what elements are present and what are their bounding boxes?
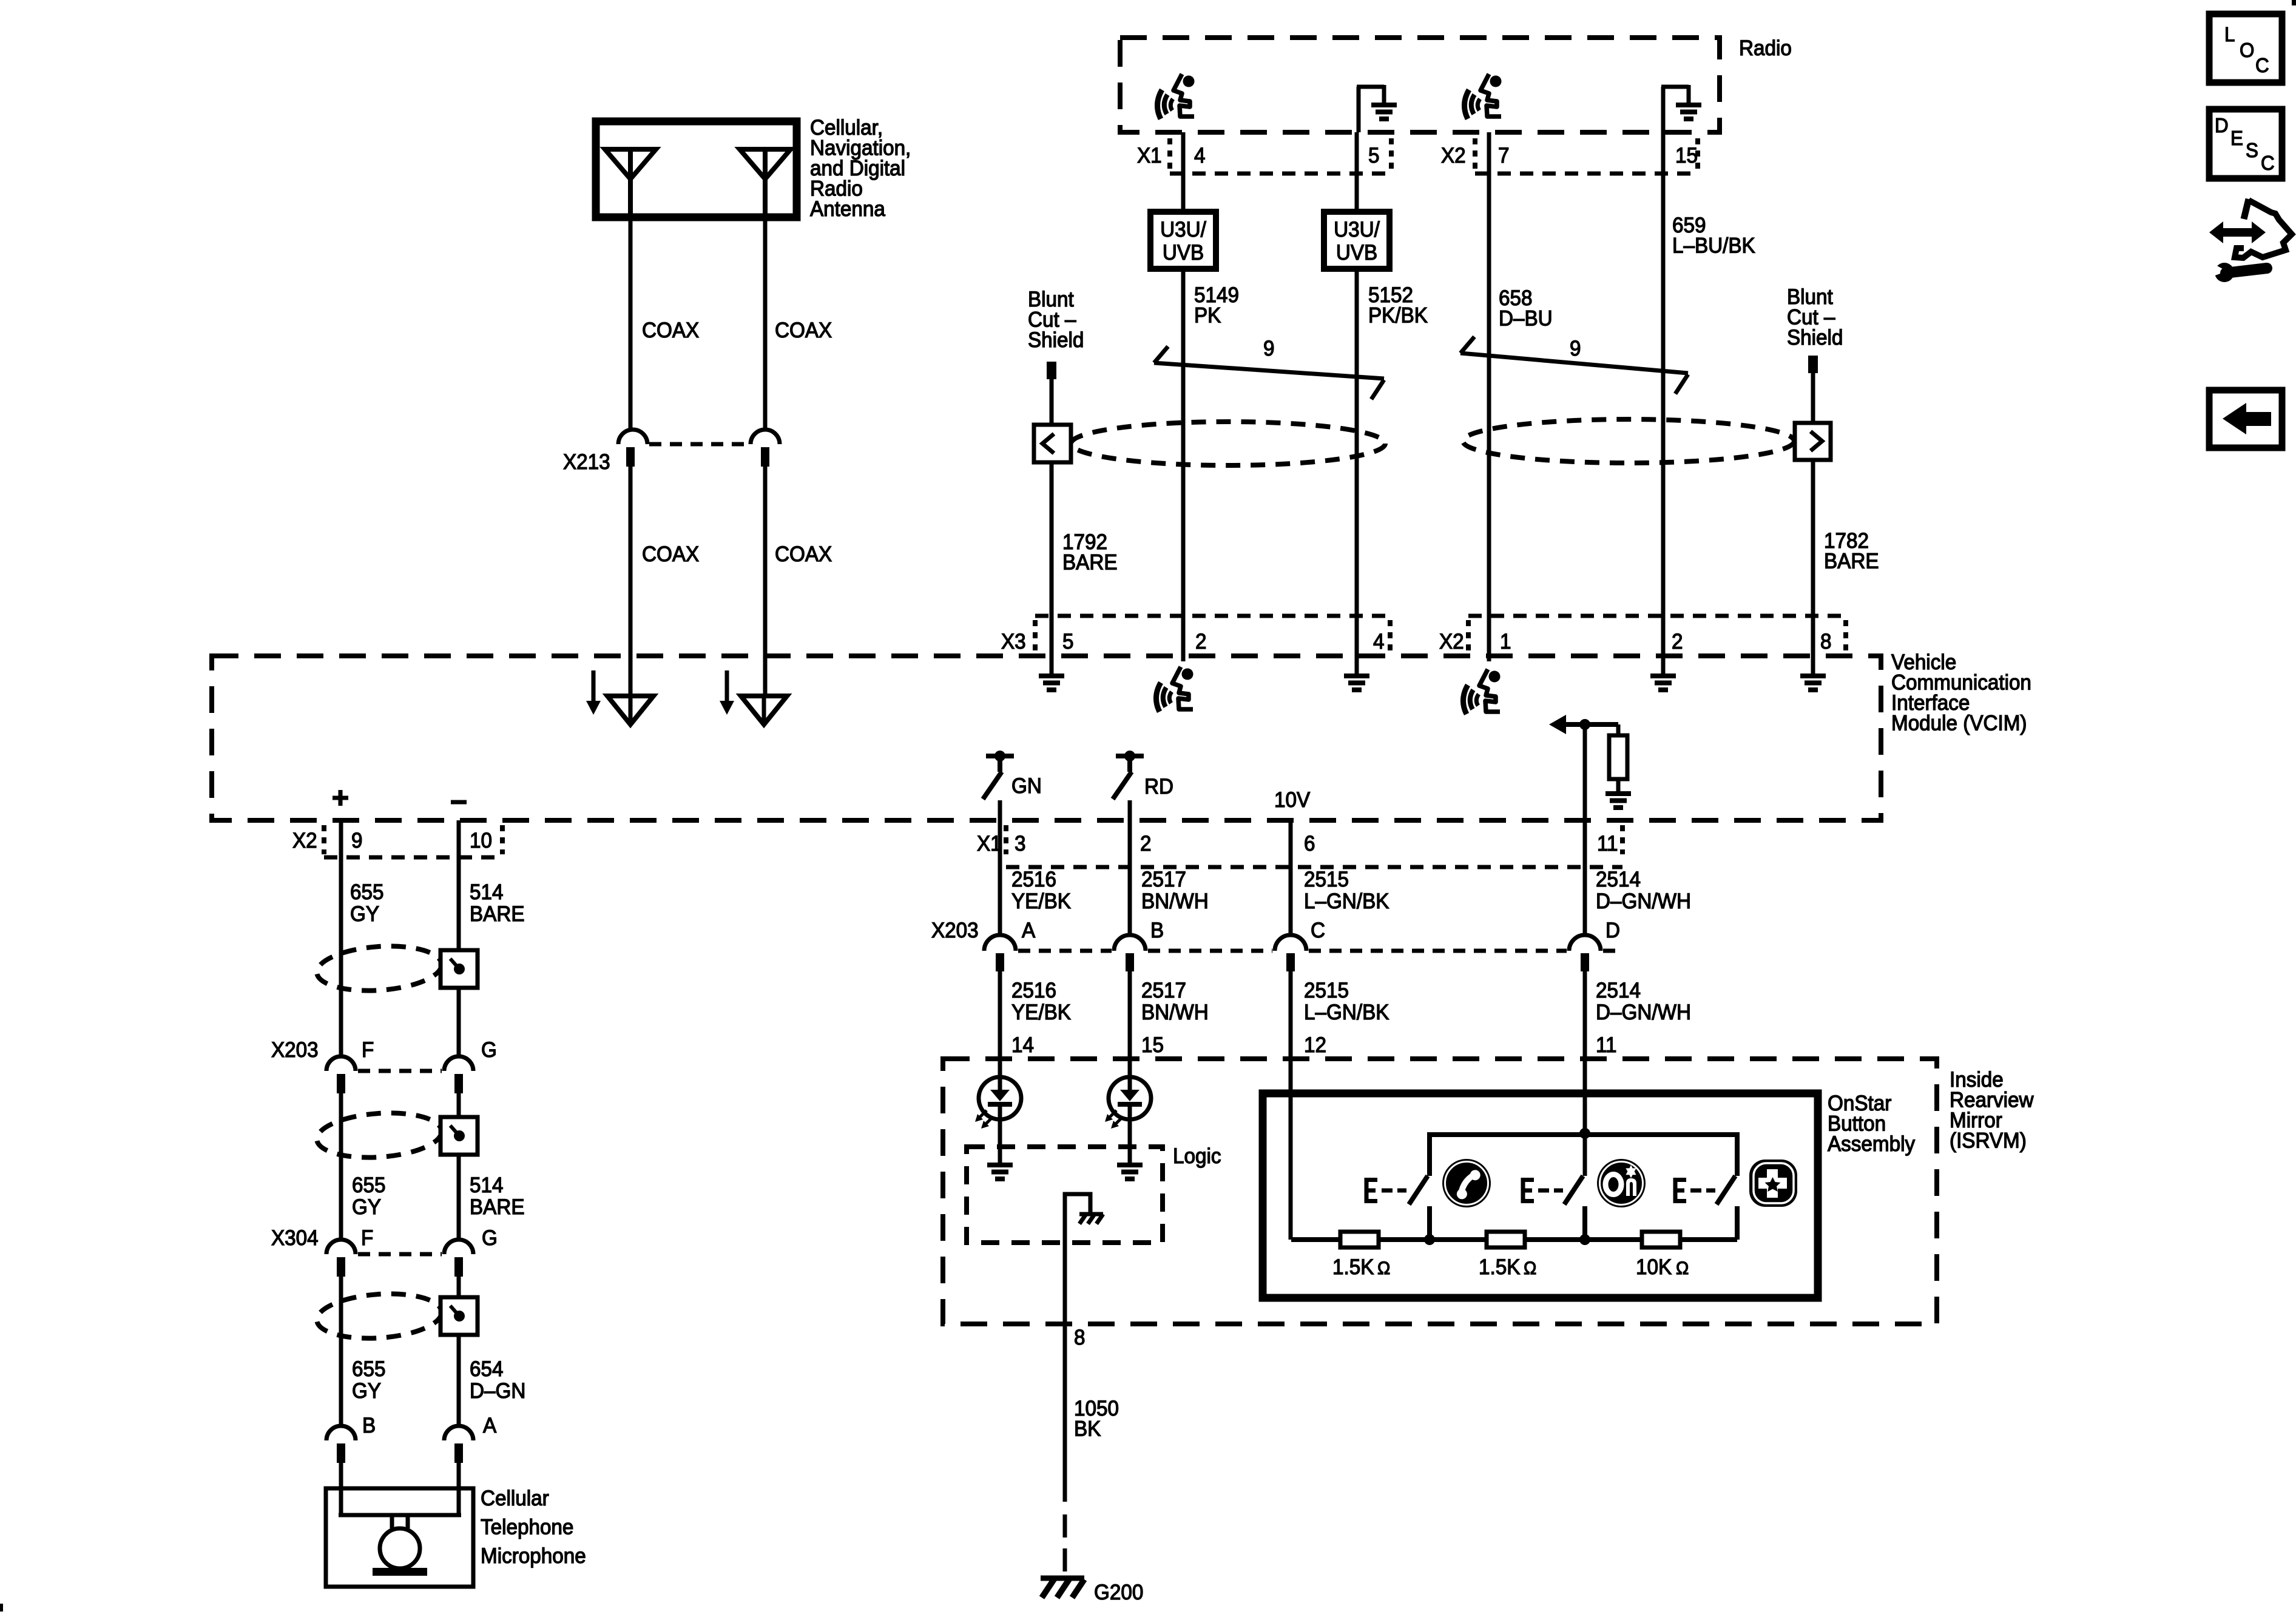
VCIM mic icon left [1181,616,1186,661]
shield drain box 2 [441,1117,478,1155]
svg-text:4: 4 [1194,144,1205,167]
shield ellipse left pair [1071,422,1385,465]
svg-text:Ω: Ω [1676,1258,1689,1278]
svg-text:X1: X1 [1137,144,1162,167]
svg-text:11: 11 [1597,832,1618,856]
svg-text:Microphone: Microphone [481,1544,586,1568]
page corner mark top right [2292,0,2296,5]
antenna feed arrow small left [592,670,596,701]
logic chassis ground symbol [1079,1214,1103,1224]
adjust hand icon wrench [2212,263,2267,282]
connector X203 arc A [984,935,1016,951]
svg-text:B: B [362,1414,376,1437]
svg-text:X2: X2 [1441,144,1466,167]
connector B arc [326,1426,356,1440]
svg-text:1: 1 [1500,630,1511,653]
plus symbol [333,796,348,800]
wire 654 D-GN segment 3b [457,1335,461,1426]
svg-text:G: G [482,1226,498,1250]
svg-text:Telephone: Telephone [481,1516,573,1539]
Radio dashed box [1120,38,1720,132]
VCIM X2 mic connector strip [322,825,326,854]
VCIM dashed box [212,656,1881,820]
svg-text:BN/WH: BN/WH [1141,1001,1209,1024]
connector A arc [444,1426,473,1440]
svg-text:X3: X3 [1001,630,1026,653]
antenna end triangle right [741,696,787,724]
wire count slash 9 left pair [1154,346,1384,399]
svg-text:655: 655 [352,1173,385,1197]
wire COAX right lower [763,467,768,696]
wire 655 GY segment 3 [339,1277,343,1426]
minus symbol [451,800,467,805]
svg-text:4: 4 [1373,630,1384,653]
svg-text:15: 15 [1675,144,1698,167]
svg-text:S: S [2246,139,2258,161]
connector X213 left arc [618,430,647,444]
shield ellipse left chain 2 [316,1109,444,1161]
mic icon radio left [1157,74,1194,119]
VCIM ground under 659 wire [1661,616,1666,673]
junction dot D on top bus [1579,1128,1590,1139]
svg-text:6: 6 [1304,832,1315,856]
VCIM ground under shield drain left [1050,616,1054,673]
svg-text:GN: GN [1011,774,1042,798]
wire 5152 PK/BK [1355,132,1359,212]
svg-text:2516: 2516 [1011,979,1056,1002]
medic button icon [1749,1160,1797,1207]
connector X203 arc D [1569,935,1601,951]
svg-text:Shield: Shield [1787,326,1843,349]
svg-text:GY: GY [350,902,379,926]
wire 514 BARE segment 2b [457,1155,461,1240]
back arrow glyph [2223,403,2271,434]
connector X203G pin [454,1074,463,1093]
connector X213 left pin [626,447,635,467]
LOC icon box [2209,14,2282,83]
connector B pin [337,1443,345,1463]
svg-text:655: 655 [352,1357,385,1381]
page corner mark bottom left [0,1604,3,1612]
VCIM resistor [1616,724,1621,735]
connector X203G arc [444,1056,473,1071]
svg-text:D: D [2215,114,2229,137]
svg-text:2: 2 [1140,832,1151,856]
svg-text:BARE: BARE [470,902,525,926]
connector X203 pin C rect [1286,953,1295,971]
radio ground symbol right [1661,87,1666,132]
svg-text:10K: 10K [1636,1255,1672,1279]
VCIM X3 connector strip [1033,620,1038,652]
mic icon radio right [1464,74,1501,119]
svg-text:UVB: UVB [1336,241,1377,265]
svg-text:2514: 2514 [1596,868,1641,891]
wire 2514 lower [1583,971,1587,1133]
svg-text:X2: X2 [1439,630,1464,653]
VCIM ground under shield drain right [1811,616,1815,673]
svg-text:10V: 10V [1274,788,1310,812]
ground G200 chassis [1063,1576,1067,1578]
VCIM resistor ground [1606,791,1631,810]
svg-text:D: D [1606,919,1620,942]
connector X203 pin D rect [1581,953,1589,971]
Cellular Telephone Microphone box [326,1488,473,1587]
svg-text:5: 5 [1062,630,1073,653]
svg-text:PK: PK [1194,304,1221,328]
wire 2517 upper [1128,800,1132,935]
svg-text:2516: 2516 [1011,868,1056,891]
svg-text:A: A [483,1414,496,1437]
svg-text:Module (VCIM): Module (VCIM) [1891,712,2027,735]
shield ellipse left chain 3 [316,1290,444,1342]
connector X203F arc [326,1056,356,1071]
svg-text:F: F [362,1038,374,1062]
shield drain connector box right [1795,423,1831,460]
connector X304 dashed link [358,1252,442,1257]
ISRVM dashed box [943,1059,1937,1324]
svg-text:U3U/: U3U/ [1160,218,1206,241]
DESC icon box [2209,109,2282,178]
shield drain box 1 [441,950,478,988]
svg-text:2517: 2517 [1141,868,1186,891]
wire count slash 9 right pair [1460,337,1688,394]
svg-text:2517: 2517 [1141,979,1186,1002]
svg-text:A: A [1022,919,1035,942]
svg-text:X203: X203 [931,919,979,942]
svg-text:B: B [1150,919,1164,942]
antenna symbol left [605,149,656,179]
radio ground symbol left [1357,87,1361,132]
switch RD [1116,754,1144,758]
svg-text:Antenna: Antenna [810,197,885,221]
svg-text:F: F [361,1226,373,1250]
svg-text:3: 3 [1015,832,1025,856]
wire 514 BARE segment 1b [457,988,461,1057]
connector X203 dashed row [1018,949,1112,953]
mic internal neck [392,1515,408,1528]
svg-text:O: O [2240,39,2254,61]
connector X304G arc [444,1240,473,1254]
svg-text:BARE: BARE [470,1195,525,1219]
svg-text:C: C [1311,919,1325,942]
svg-text:BK: BK [1074,1417,1101,1441]
switch GN [986,754,1014,758]
svg-text:Radio: Radio [1739,36,1792,60]
svg-text:E: E [2230,127,2243,149]
svg-text:D–GN: D–GN [470,1379,525,1403]
wire 2516 upper [998,800,1002,935]
svg-text:10: 10 [470,829,492,852]
VCIM bus arrow left [1549,715,1566,734]
svg-text:8: 8 [1820,630,1831,653]
svg-text:Ω: Ω [1524,1258,1536,1278]
connector X203 pin B rect [1126,953,1134,971]
wire 514 BARE segment 2 [457,1093,461,1116]
mic internal circle [380,1528,420,1568]
junction dot bus 1 [1424,1234,1435,1245]
medic switch E contact [1673,1178,1686,1203]
wire 1050 BK upper [1063,1241,1067,1324]
adjust hand icon double arrow [2209,221,2266,243]
junction dot bus 2 [1579,1234,1590,1245]
phone switch E contact [1365,1178,1377,1203]
svg-text:BARE: BARE [1062,551,1118,575]
LED B ground [1117,1163,1143,1181]
adjust hand icon outline [2244,199,2249,219]
LED A ground [987,1163,1013,1181]
svg-text:Shield: Shield [1028,328,1084,352]
mic internal bus [339,1513,461,1517]
connector X304F pin [337,1257,345,1277]
LED A [998,1059,1002,1077]
back arrow icon box [2209,390,2282,448]
wire 1050 BK lower [1063,1324,1067,1502]
svg-text:2515: 2515 [1304,979,1349,1002]
svg-text:D–GN/WH: D–GN/WH [1596,1001,1691,1024]
wire 655 GY segment 1 [339,820,343,1057]
svg-text:G: G [481,1038,497,1062]
svg-text:Logic: Logic [1173,1144,1221,1168]
wire D to bottom inside assembly [1583,1135,1587,1176]
VCIM mic icon right [1487,616,1491,661]
wire COAX left lower [629,467,633,696]
resistor 1.5K second [1487,1232,1525,1247]
svg-text:(ISRVM): (ISRVM) [1950,1129,2027,1153]
antenna assembly box [596,121,797,217]
svg-text:12: 12 [1304,1033,1326,1057]
connector X213 dashed link [649,442,749,447]
svg-text:Assembly: Assembly [1828,1132,1915,1156]
connector A pin [454,1443,463,1463]
connector X203 pin A rect [996,953,1004,971]
svg-text:X304: X304 [271,1226,319,1250]
svg-text:9: 9 [1263,337,1274,360]
svg-text:655: 655 [350,880,383,904]
mic internal base bar [373,1568,427,1576]
svg-text:RD: RD [1144,775,1173,798]
LED B [1105,1077,1151,1129]
svg-text:7: 7 [1498,144,1509,167]
wire 1050 BK dashed segment [1063,1514,1067,1576]
svg-text:PK/BK: PK/BK [1368,304,1428,328]
svg-text:L–BU/BK: L–BU/BK [1672,234,1755,258]
svg-text:14: 14 [1011,1033,1034,1057]
svg-text:D–BU: D–BU [1499,307,1553,331]
svg-text:2515: 2515 [1304,868,1349,891]
OnStar Button Assembly box [1263,1093,1818,1298]
svg-text:L–GN/BK: L–GN/BK [1304,1001,1389,1024]
svg-text:5: 5 [1368,144,1379,167]
svg-text:COAX: COAX [775,319,832,342]
radio connector X1 strip [1167,138,1172,170]
svg-text:L–GN/BK: L–GN/BK [1304,890,1389,913]
svg-text:Cellular: Cellular [481,1487,549,1510]
svg-text:11: 11 [1596,1033,1617,1057]
svg-text:X203: X203 [271,1038,319,1062]
svg-text:GY: GY [352,1379,381,1403]
wire 2517 lower [1128,971,1132,1077]
connector X304G pin [454,1257,463,1277]
wire 1782 BARE shield drain [1811,373,1815,616]
shield drain connector box left [1034,425,1071,462]
svg-text:514: 514 [470,1173,503,1197]
svg-text:GY: GY [352,1195,381,1219]
VCIM ground under 5152 wire [1355,616,1359,673]
wire to mic right [457,1463,461,1517]
VCIM X2 connector strip top [1466,620,1471,652]
svg-text:2514: 2514 [1596,979,1641,1002]
connector X213 right arc [751,430,780,444]
svg-text:COAX: COAX [642,319,699,342]
svg-text:514: 514 [470,880,503,904]
svg-text:YE/BK: YE/BK [1011,1001,1071,1024]
wire 5149 PK [1181,132,1186,212]
svg-text:D–GN/WH: D–GN/WH [1596,890,1691,913]
connector X203 arc B [1114,935,1146,951]
Logic dashed box [967,1147,1163,1243]
antenna symbol right [740,149,791,179]
connector X203FG dashed link [358,1069,442,1073]
svg-text:654: 654 [470,1357,503,1381]
blunt cut pin right [1808,356,1818,373]
svg-text:1.5K: 1.5K [1332,1255,1374,1279]
svg-text:15: 15 [1141,1033,1164,1057]
shield ellipse left chain 1 [316,942,444,994]
svg-text:9: 9 [351,829,362,852]
resistor 1.5K first [1340,1232,1379,1247]
wire 658 D-BU [1487,132,1491,616]
svg-text:BN/WH: BN/WH [1141,890,1209,913]
svg-text:2: 2 [1672,630,1683,653]
wire 2515 lower [1289,971,1293,1094]
blunt cut pin left [1047,362,1056,379]
svg-text:9: 9 [1570,337,1581,360]
svg-text:X213: X213 [563,450,610,474]
U3U/UVB box left [1150,212,1216,269]
wire 655 GY segment 2 [339,1093,343,1240]
button assembly top bus [1430,1135,1737,1176]
wire 2514 inside VCIM [1583,724,1587,820]
svg-text:UVB: UVB [1163,241,1204,265]
VCIM X1 connector strip [1004,825,1008,854]
connector X213 right pin [761,447,769,467]
wire 1792 BARE shield drain [1050,379,1054,616]
U3U/UVB box right [1324,212,1389,269]
wire 2516 lower [998,971,1002,1077]
svg-text:2: 2 [1195,630,1206,653]
phone button icon [1442,1159,1491,1207]
radio connector X2 strip [1473,138,1477,170]
connector X203F pin [337,1074,345,1093]
svg-text:8: 8 [1074,1326,1085,1349]
svg-text:COAX: COAX [775,542,832,566]
onstar switch E contact [1521,1178,1534,1203]
shield ellipse right pair [1463,419,1794,463]
antenna end triangle left [607,696,653,724]
wire to mic left [339,1463,343,1517]
svg-text:1.5K: 1.5K [1479,1255,1521,1279]
svg-text:BARE: BARE [1824,550,1879,573]
button assembly bottom bus [1291,1237,1737,1242]
onstar button icon [1597,1159,1646,1207]
svg-text:X2: X2 [292,829,317,852]
svg-text:YE/BK: YE/BK [1011,890,1071,913]
wire 659 L-BU/BK [1661,132,1666,616]
resistor 10K [1642,1232,1680,1247]
svg-text:U3U/: U3U/ [1334,218,1380,241]
svg-text:Ω: Ω [1377,1258,1390,1278]
svg-text:L: L [2224,23,2235,46]
wire 2515 upper [1289,820,1293,935]
svg-text:C: C [2255,54,2269,76]
svg-text:COAX: COAX [642,542,699,566]
wire 2515 inside button assembly [1289,1094,1293,1240]
wire 654 D-GN segment 3 [457,1277,461,1297]
wire 514 BARE segment 1 [457,820,461,951]
wire 2514 upper [1583,820,1587,935]
wire COAX right upper [763,217,768,430]
antenna feed arrow small right [725,670,729,701]
svg-text:C: C [2261,152,2275,174]
svg-text:G200: G200 [1094,1581,1143,1604]
connector X304F arc [326,1240,356,1254]
wire COAX left upper [629,217,633,430]
VCIM junction dot pin 11 net [1579,719,1590,730]
connector X203 arc C [1275,935,1306,951]
shield drain box 3 [441,1297,478,1335]
logic internal ground hook [1065,1194,1090,1241]
